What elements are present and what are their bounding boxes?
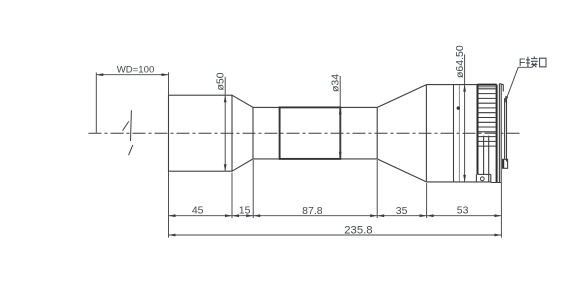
- svg-text:87.8: 87.8: [302, 205, 323, 217]
- svg-text:ø50: ø50: [214, 72, 226, 90]
- svg-text:WD=100: WD=100: [117, 65, 155, 76]
- svg-text:45: 45: [192, 205, 204, 217]
- svg-text:15: 15: [239, 205, 251, 217]
- svg-text:53: 53: [457, 205, 469, 217]
- svg-text:F: F: [519, 57, 526, 69]
- svg-text:35: 35: [396, 205, 408, 217]
- svg-text:ø34: ø34: [329, 74, 341, 92]
- svg-text:ø64.50: ø64.50: [454, 45, 466, 78]
- svg-text:235.8: 235.8: [344, 225, 372, 237]
